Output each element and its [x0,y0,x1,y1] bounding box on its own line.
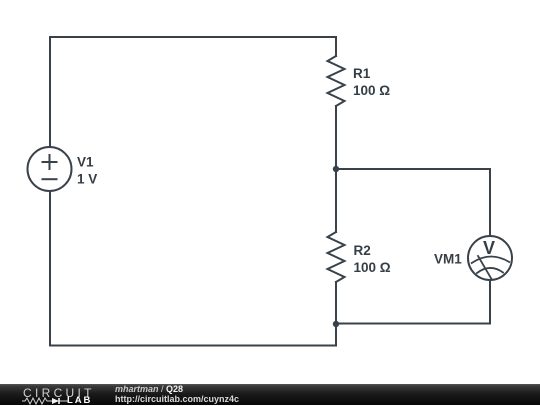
VM1 meter scale upper arc [472,256,510,263]
resistor R1 [328,56,345,106]
voltmeter VM1 circle [468,236,512,280]
wire top rail from V1 to R1 branch [50,36,336,38]
V1 plus sign [43,155,57,169]
wire R1 bottom lead to node A [335,106,337,169]
wire node B to bottom rail [335,324,337,346]
node A junction dot [333,166,339,172]
wire node B to voltmeter branch bottom (horizontal) [336,323,490,325]
resistor R2 [328,232,345,282]
V1 minus sign [43,178,57,180]
voltage source V1 circle [28,147,72,191]
wire R1 top lead from top rail [335,37,337,56]
wire right rail upper (to VM1 top) [489,169,491,236]
node B junction dot [333,321,339,327]
svg-text:R1: R1 [353,66,371,81]
footer author line [115,384,183,394]
svg-text:1 V: 1 V [77,171,97,186]
svg-text:R2: R2 [354,243,371,258]
CircuitLab logo resistor + diode glyph [22,397,68,405]
VM1 needle [478,256,492,279]
wire node A to voltmeter branch (horizontal) [336,168,490,170]
svg-text:100 Ω: 100 Ω [354,260,391,275]
svg-text:V1: V1 [77,155,94,170]
CircuitLab logo text CIRCUIT [23,386,95,400]
CircuitLab logo text LAB [67,395,92,406]
svg-text:VM1: VM1 [434,252,462,267]
wire right rail lower (VM1 bottom down) [489,280,491,324]
wire bottom rail [50,345,336,347]
footer bar [0,384,540,405]
wire node A to R2 top [335,169,337,232]
svg-text:100 Ω: 100 Ω [353,83,390,98]
wire left rail lower (V1 bottom to bottom rail) [49,191,51,346]
wire left rail upper (top rail to V1 top) [49,37,51,147]
VM1 meter scale lower arc [477,268,503,273]
svg-text:V: V [483,238,495,258]
wire R2 bottom lead to node B [335,282,337,324]
footer url line [115,394,239,404]
